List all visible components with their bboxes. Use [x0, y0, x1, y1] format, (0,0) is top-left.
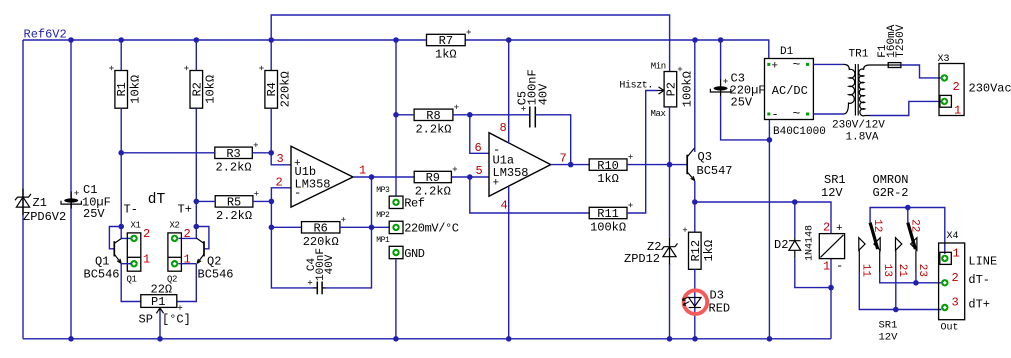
junction T- at Q1 base branch [118, 224, 124, 230]
X4 pad 1 [941, 255, 948, 262]
wire top bypass Ref6V2 to P2 Min [271, 15, 669, 72]
resistor R7 [427, 34, 466, 45]
relay contact throw triangle 13 [874, 238, 880, 251]
svg-text:MP3: MP3 [376, 186, 390, 195]
junction 21 on dT+ wire [893, 307, 899, 313]
svg-text:OMRON: OMRON [873, 173, 909, 187]
capacitor C4 loop parallel R6 [271, 227, 313, 288]
zener Z1 [15, 194, 31, 200]
wire D1 ac bottom to TR1 secondary [813, 113, 843, 115]
svg-text:6: 6 [475, 141, 482, 155]
wire MP1 to GND rail [395, 259, 397, 339]
svg-text:1: 1 [823, 260, 830, 274]
wire R10 right to Q3 base [627, 164, 687, 166]
X4 pad 3 [941, 304, 948, 311]
transistor Q2 BC546 [196, 227, 209, 249]
relay contact throw triangle 23 [911, 238, 917, 251]
zener Z2 [662, 244, 678, 250]
junction on Ref6V2 rail at MP3/R8 branch [393, 37, 399, 43]
svg-text:+: + [836, 223, 843, 235]
relay contact blade 22 [908, 223, 916, 249]
connector X1 [127, 233, 141, 271]
svg-text:MP1: MP1 [376, 236, 390, 245]
svg-text:SR1: SR1 [824, 173, 846, 187]
svg-text:T-: T- [124, 203, 138, 217]
svg-text:GND: GND [404, 247, 425, 261]
svg-text:Z1: Z1 [33, 196, 47, 210]
junction R9 right / +in node [467, 174, 473, 180]
svg-text:AC/DC: AC/DC [772, 84, 808, 98]
fuse F1 [888, 63, 901, 68]
connector X4 [939, 243, 965, 320]
svg-text:R7: R7 [439, 34, 453, 48]
wire R4 rail from Ref6V2 to R4 [270, 40, 272, 71]
svg-text:1: 1 [954, 104, 961, 118]
X2 pad 1 [171, 260, 178, 267]
svg-text:B40C1000: B40C1000 [773, 126, 826, 138]
svg-text:SP: SP [139, 313, 153, 327]
svg-text:1kΩ: 1kΩ [435, 48, 457, 62]
X1 pad 2 [130, 235, 137, 242]
wire feedback node down from output to R6/MP2 line [371, 177, 373, 227]
junction on 12V rail at Q3 collector [692, 37, 698, 43]
wire blade 22 stub [907, 208, 909, 223]
svg-text:R11: R11 [597, 207, 619, 221]
transistor Q1 BC546 [109, 227, 121, 249]
svg-text:11: 11 [860, 264, 872, 278]
wire R9 right to pin 5 of U1a [451, 176, 489, 178]
svg-text:22: 22 [908, 219, 920, 232]
svg-text:LINE: LINE [968, 255, 997, 269]
junction R8 right / C5 left [467, 112, 473, 118]
wire F1 to X3 pad 2 [901, 65, 941, 78]
wire Q2 emitter to X2 pad1 and P1 [179, 263, 197, 265]
svg-text:23: 23 [916, 264, 928, 277]
P2 wiper arrow [658, 90, 664, 92]
svg-text:R3: R3 [226, 147, 240, 161]
wire contact 21 stem [895, 250, 897, 272]
svg-text:BC547: BC547 [697, 164, 733, 178]
svg-text:R10: R10 [597, 159, 619, 173]
svg-text:P2: P2 [664, 82, 678, 96]
svg-text:12: 12 [871, 219, 883, 232]
svg-text:dT: dT [148, 192, 166, 208]
connector X3 [939, 64, 964, 116]
junction R8 left [393, 112, 399, 118]
resistor R11 [589, 207, 627, 218]
svg-text:-: - [294, 186, 301, 200]
svg-text:1kΩ: 1kΩ [702, 240, 716, 262]
junction T- at R3 [118, 150, 124, 156]
svg-text:R2: R2 [190, 82, 204, 96]
wire U1a pin 4 to GND rail [508, 186, 510, 338]
wire C1 branch [70, 40, 72, 339]
junction on Ref6V2 rail at C1 [68, 37, 74, 43]
svg-text:10kΩ: 10kΩ [204, 75, 218, 104]
svg-text:R8: R8 [426, 109, 440, 123]
svg-text:Min: Min [651, 62, 666, 72]
wire R6 left to -in node [271, 226, 301, 228]
X2 pad 2 [171, 235, 178, 242]
wire Q3 emitter to relay coil and D2 [695, 202, 831, 234]
wire D1 ac top to TR1 secondary [813, 63, 843, 65]
svg-text:RED: RED [709, 302, 731, 316]
resistor R12 [689, 232, 702, 269]
wire D1 minus down to GND rail [768, 120, 770, 339]
wire U1a output pin 7 [551, 164, 590, 166]
wire Z2 to GND rail [669, 264, 671, 339]
junction GND at C1 [68, 336, 74, 342]
diode D2 1N4148 [794, 202, 796, 238]
wire Ref6V2 top rail [23, 39, 427, 41]
transistor Q3 BC547 [686, 155, 688, 175]
svg-text:1N4148: 1N4148 [804, 225, 815, 261]
junction coil bottom / GND riser [828, 285, 834, 291]
wire TR1 primary bottom to X3 pad 1 [870, 101, 941, 115]
svg-text:4: 4 [501, 199, 508, 213]
capacitor C1 [70, 192, 72, 209]
junction U1a output / C5 [568, 162, 574, 168]
potentiometer P1 [141, 295, 177, 308]
junction GND at D3 [692, 336, 698, 342]
svg-text:R6: R6 [313, 222, 327, 236]
svg-text:-: - [772, 108, 779, 122]
svg-text:21: 21 [896, 264, 908, 278]
wire R2 rail from Ref6V2 to R2 [195, 40, 197, 71]
resistor R10 [589, 159, 627, 170]
svg-text:Ref: Ref [404, 197, 425, 211]
relay coil SR1 [819, 234, 844, 259]
resistor R1 [115, 71, 128, 109]
X3 pin1 square [940, 95, 952, 107]
svg-text:X3: X3 [938, 54, 950, 65]
junction at D2 top [792, 199, 798, 205]
wire Q1 emitter to X1 pad1 and P1 [121, 263, 131, 265]
svg-text:Hiszt.: Hiszt. [619, 80, 653, 92]
resistor R5 [215, 196, 253, 207]
svg-text:1: 1 [143, 253, 150, 267]
relay contact pole triangle 11 [859, 238, 865, 251]
wire contact 13 stem [879, 250, 881, 272]
wire +in node down to R11 [470, 177, 589, 213]
svg-text:D3: D3 [710, 289, 724, 303]
op-amp U1b [291, 146, 353, 207]
resistor R4 [265, 71, 278, 109]
X3 pad 2 [941, 74, 948, 81]
resistor R9 [414, 171, 451, 182]
svg-text:dT+: dT+ [968, 298, 990, 312]
op-amp U1a [489, 133, 551, 197]
svg-text:220kΩ: 220kΩ [279, 71, 293, 107]
svg-text:[°C]: [°C] [162, 313, 191, 327]
wire contact 23 stem [915, 250, 917, 272]
svg-text:220mV/°C: 220mV/°C [404, 222, 459, 236]
wire P2 bottom to R10 node and Z2 [669, 107, 671, 239]
potentiometer P2 [664, 72, 677, 107]
junction GND at D1 minus [767, 336, 773, 342]
wire R11 right up to P2 wiper [627, 91, 658, 214]
svg-text:7: 7 [560, 152, 567, 166]
svg-text:~: ~ [793, 106, 801, 121]
junction GND at MP1 [393, 336, 399, 342]
svg-text:2: 2 [952, 271, 959, 285]
svg-text:230V/12V: 230V/12V [832, 120, 885, 132]
junction at R6 left [269, 225, 275, 231]
resistor R2 [190, 71, 203, 109]
wire Q3 collector to 12V rail [694, 40, 696, 152]
svg-text:2: 2 [276, 176, 283, 190]
svg-text:Q3: Q3 [698, 150, 712, 164]
svg-text:2.2kΩ: 2.2kΩ [415, 185, 451, 199]
svg-text:R4: R4 [265, 82, 279, 96]
X3 pad 1 [941, 98, 948, 105]
junction contact bus at blade 22 [905, 205, 911, 211]
svg-text:2.2kΩ: 2.2kΩ [216, 209, 252, 223]
wire Q3 emitter node [694, 181, 696, 232]
capacitor C5 [529, 107, 531, 128]
svg-text:2: 2 [184, 227, 191, 241]
svg-text:5: 5 [476, 164, 483, 178]
svg-text:R5: R5 [227, 196, 241, 210]
svg-text:TR1: TR1 [849, 49, 869, 61]
junction on 12V rail at C3 [718, 37, 724, 43]
svg-text:BC546: BC546 [198, 267, 234, 281]
svg-text:2: 2 [823, 221, 830, 235]
wire relay contact top bus from blade 12 to X4 pin1 [870, 208, 945, 255]
wire coil bottom to GND rail [830, 259, 832, 339]
resistor R6 [302, 222, 340, 233]
svg-text:2.2kΩ: 2.2kΩ [415, 122, 451, 136]
wire U1b output pin 1 [353, 176, 414, 178]
wire 12V top rail right of R7 [465, 40, 769, 59]
svg-text:T+: T+ [178, 203, 192, 217]
svg-text:22Ω: 22Ω [151, 283, 173, 297]
svg-text:T250V: T250V [895, 24, 907, 57]
rectifier D1 AC/DC [765, 59, 814, 120]
wire R4 to node +in of U1b, jog to pin 3 [271, 108, 291, 165]
junction T+ at R5 [194, 199, 200, 205]
svg-text:SR1: SR1 [879, 320, 898, 332]
wire C3 bottom to GND node [721, 96, 770, 140]
svg-text:dT-: dT- [968, 273, 990, 287]
P1 wiper arrow [159, 311, 161, 339]
svg-text:Q1: Q1 [127, 275, 137, 285]
svg-text:~: ~ [793, 57, 801, 72]
wire GND bottom rail [23, 338, 831, 340]
wire contact 11 stem [858, 250, 860, 272]
resistor R3 [215, 147, 253, 158]
svg-text:D2: D2 [774, 238, 788, 252]
junction 23 on dT- wire [913, 280, 919, 286]
svg-text:Out: Out [941, 323, 959, 334]
svg-text:X2: X2 [170, 221, 180, 231]
wire Z1 branch [22, 40, 24, 339]
wire MP3 branch from Ref6V2 rail [395, 40, 397, 196]
svg-text:3: 3 [952, 296, 959, 310]
svg-text:230Vac: 230Vac [969, 82, 1011, 96]
junction GND at Z2 [667, 336, 673, 342]
svg-text:X4: X4 [947, 231, 959, 242]
wire R3 left to T- rail [121, 152, 215, 154]
svg-text:40V: 40V [324, 254, 336, 274]
wire down to pin 6 of U1a [470, 115, 489, 154]
svg-text:BC546: BC546 [84, 267, 120, 281]
junction C3/D1- GND node [767, 137, 773, 143]
junction node R3/R4 [268, 150, 274, 156]
svg-text:13: 13 [881, 264, 893, 277]
connector X2 [168, 233, 182, 271]
wire R3 right to junction [252, 152, 271, 154]
svg-text:100kΩ: 100kΩ [681, 71, 695, 107]
svg-text:2.2kΩ: 2.2kΩ [216, 160, 252, 174]
relay contact blade 12 [870, 223, 878, 249]
resistor R8 [414, 109, 453, 120]
junction on Ref6V2 rail at R4 [268, 37, 274, 43]
svg-text:Ref6V2: Ref6V2 [24, 28, 67, 42]
svg-text:R1: R1 [115, 82, 129, 96]
svg-text:-: - [836, 259, 843, 273]
wire D2 bottom to coil bottom [795, 259, 831, 288]
svg-text:X1: X1 [131, 221, 141, 231]
svg-text:2: 2 [143, 227, 150, 241]
svg-text:10kΩ: 10kΩ [129, 75, 143, 104]
svg-text:40V: 40V [537, 83, 551, 105]
svg-text:1kΩ: 1kΩ [597, 172, 619, 186]
svg-text:8: 8 [500, 121, 507, 135]
wire R12 to D3 [694, 269, 696, 339]
svg-text:D1: D1 [780, 46, 794, 58]
wire R5 right to -in node, jog to pin 2 [271, 188, 291, 227]
svg-text:2: 2 [953, 80, 960, 94]
junction -in node at R5 [269, 199, 275, 205]
svg-text:100kΩ: 100kΩ [590, 221, 626, 235]
junction on Ref6V2 rail at R1 [118, 37, 124, 43]
wire R8 right to -in U1a and C5 [453, 114, 529, 116]
X1 pad 1 [130, 260, 137, 267]
wire R5 left to T+ rail [196, 200, 215, 202]
svg-text:1: 1 [359, 164, 366, 178]
wire C5 right to U1a output [535, 115, 570, 165]
wire R8 left to Ref branch [396, 114, 414, 116]
junction on 12V rail at U1a pin8 [506, 37, 512, 43]
svg-text:R12: R12 [689, 240, 703, 262]
relay contact pole triangle 21 [896, 238, 902, 251]
junction U1b output node [369, 174, 375, 180]
svg-text:220kΩ: 220kΩ [303, 235, 339, 249]
LED D3 RED [684, 290, 708, 314]
wire U1a pin 8 to 12V rail [508, 40, 510, 143]
svg-text:25V: 25V [731, 96, 753, 110]
svg-text:25V: 25V [83, 207, 105, 221]
svg-text:Max: Max [651, 109, 666, 119]
X4 pin1 square [940, 252, 952, 264]
junction T+ at Q2 base branch [194, 224, 200, 230]
svg-text:ZPD12: ZPD12 [624, 252, 660, 266]
junction Q3 emitter node [692, 199, 698, 205]
junction R10/P2/Z2 node [667, 162, 673, 168]
svg-text:P1: P1 [151, 295, 165, 309]
capacitor C3 [720, 40, 722, 80]
junction GND at U1a pin4 [506, 336, 512, 342]
svg-text:1: 1 [953, 247, 960, 261]
svg-text:+: + [493, 178, 500, 190]
svg-text:12V: 12V [821, 186, 843, 200]
wire T- rail R1 to X1 [121, 108, 131, 238]
svg-text:R9: R9 [426, 171, 440, 185]
svg-text:MP2: MP2 [376, 211, 390, 220]
svg-text:1.8VA: 1.8VA [846, 132, 879, 144]
junction at R6 right [369, 225, 375, 231]
svg-text:12V: 12V [879, 332, 899, 344]
svg-text:3: 3 [277, 152, 284, 166]
wire R6 right to MP2 pad [340, 226, 389, 228]
wire T+ rail R2 to X2 [179, 108, 197, 238]
svg-text:+: + [772, 61, 779, 73]
X4 pad 2 [941, 279, 948, 286]
junction on Ref6V2 rail at R2 [194, 37, 200, 43]
svg-text:ZPD6V2: ZPD6V2 [23, 210, 66, 224]
capacitor C4 [313, 287, 317, 289]
wire T- rail from Ref6V2 to R1 [120, 40, 122, 71]
junction GND at P1 wiper [157, 336, 163, 342]
svg-text:G2R-2: G2R-2 [873, 186, 909, 200]
